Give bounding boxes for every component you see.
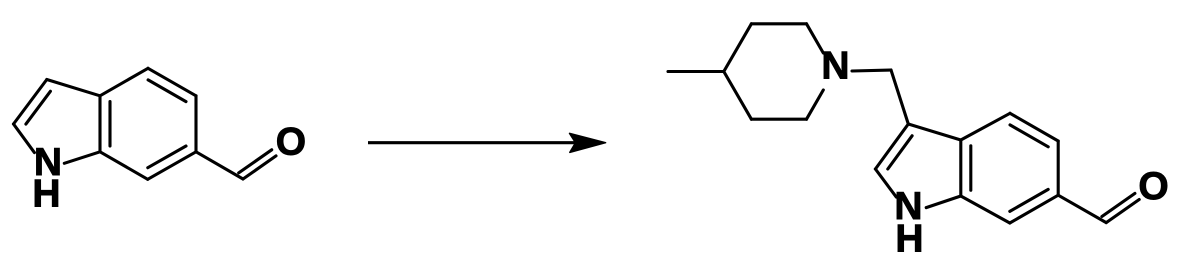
double bond C8=O main line (right indole) xyxy=(1106,200,1139,223)
bond methyl-C4 piperidine xyxy=(668,70,724,73)
bond N1-C2 (left indole) xyxy=(14,124,35,153)
double bond C8=O main line (left indole) xyxy=(243,156,276,179)
bond C7-C7a (right indole) xyxy=(961,196,1010,223)
bond C6-C5 piperidine xyxy=(751,118,806,121)
double bond C2=C3 (left indole) xyxy=(14,80,47,125)
svg-text:H: H xyxy=(32,172,60,215)
double bond C3a=C7a fusion (left indole) xyxy=(98,96,101,152)
double bond C6=C7 (right indole) (inner line) xyxy=(1010,189,1048,211)
reaction arrow shaft xyxy=(368,141,599,144)
bond C4-C3 piperidine xyxy=(724,24,752,72)
bond C3-C3a (right indole) xyxy=(908,124,961,140)
bond C5-C4 piperidine xyxy=(724,72,752,120)
bond C3a-C4 (left indole) xyxy=(100,68,148,96)
bond C7-C7a (left indole) xyxy=(100,152,148,180)
double bond C6=C7 (right indole) xyxy=(1010,195,1058,223)
double bond C4=C5 (right indole) (inner line) xyxy=(1010,125,1048,147)
bond piperidine N1-CH2 xyxy=(852,70,891,71)
svg-text:H: H xyxy=(895,218,923,261)
bond N1-C7a (left indole) xyxy=(64,152,100,164)
bond C6-C8 to aldehyde (right indole) xyxy=(1058,195,1106,222)
bond N1-C7a (right indole) xyxy=(926,196,961,208)
bond N1-C2 (right indole) xyxy=(875,169,896,197)
double bond C4=C5 (right indole) xyxy=(1010,113,1058,141)
double bond C6=C7 (left indole) xyxy=(148,152,196,180)
bond N1-C6 piperidine xyxy=(807,90,824,119)
double bond C8=O second line (right indole) xyxy=(1102,193,1135,216)
svg-text:N: N xyxy=(821,45,849,88)
bond C5-C6 (right indole) xyxy=(1057,141,1060,195)
double bond C4=C5 (left indole) (inner line) xyxy=(148,80,186,102)
bond CH2-C3 methylene linker xyxy=(891,70,908,124)
double bond C2=C3 (right indole) (inner line) xyxy=(888,136,912,169)
reaction arrow head xyxy=(570,133,606,152)
bond C2-N1 piperidine xyxy=(807,24,824,53)
bond C3-C3a (left indole) xyxy=(47,80,100,96)
svg-text:O: O xyxy=(1138,165,1168,208)
bond C6-C8 to aldehyde (left indole) xyxy=(196,152,243,179)
double bond C3a=C7a fusion (right indole) xyxy=(959,140,962,196)
bond C5-C6 (left indole) xyxy=(194,96,197,152)
double bond C3a=C7a fusion (right indole) (inner line) xyxy=(969,146,972,190)
double bond C2=C3 (left indole) (inner line) xyxy=(26,91,51,124)
double bond C6=C7 (left indole) (inner line) xyxy=(148,146,186,168)
double bond C4=C5 (left indole) xyxy=(148,68,196,96)
bond C3a-C4 (right indole) xyxy=(961,113,1010,140)
double bond C2=C3 (right indole) xyxy=(875,124,908,169)
bond C3-C2 piperidine xyxy=(751,22,806,25)
double bond C3a=C7a fusion (left indole) (inner line) xyxy=(108,102,111,146)
svg-text:O: O xyxy=(276,120,306,163)
double bond C8=O second line (left indole) xyxy=(239,150,272,173)
